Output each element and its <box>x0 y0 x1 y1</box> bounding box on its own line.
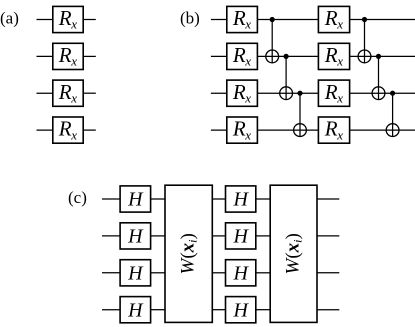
svg-text:R: R <box>232 6 246 30</box>
svg-text:H: H <box>127 189 144 211</box>
wire b1 left <box>211 19 227 21</box>
CNOT b-L2 q2->q3: control dot and vertical line <box>376 54 381 100</box>
gate Rx B2-4 <box>318 117 349 144</box>
svg-text:H: H <box>232 299 249 321</box>
svg-text:x: x <box>244 54 251 69</box>
gate H C2-4 <box>226 297 256 323</box>
wire c3 out <box>317 272 339 274</box>
svg-text:x: x <box>244 127 251 142</box>
gate Rx A4 <box>53 117 83 144</box>
CNOT b-L1 q2->q3: target oplus <box>280 87 293 100</box>
svg-text:(a): (a) <box>0 9 19 28</box>
wire a1 right <box>83 19 96 21</box>
wire c1 in <box>102 198 120 200</box>
svg-text:R: R <box>58 80 72 104</box>
svg-text:R: R <box>324 80 338 104</box>
gate H C2-2 <box>226 223 256 249</box>
CNOT b-L1 q2->q3: control dot and vertical line <box>284 54 289 100</box>
wire c2 seg2 <box>212 235 225 237</box>
svg-text:x: x <box>336 54 343 69</box>
svg-text:x: x <box>336 127 343 142</box>
gate Rx B1-2 <box>227 43 258 70</box>
CNOT b-L1 q1->q2: control dot and vertical line <box>270 17 275 63</box>
svg-text:H: H <box>232 262 249 284</box>
svg-text:x: x <box>244 90 251 105</box>
svg-text:H: H <box>127 226 144 248</box>
svg-text:R: R <box>232 43 246 67</box>
wire c4 seg3 <box>256 309 270 311</box>
gate W(x_i) #1 (entangling block) <box>165 185 212 322</box>
gate H C2-3 <box>226 260 256 286</box>
svg-text:R: R <box>324 117 338 141</box>
CNOT b-L2 q2->q3: target oplus <box>372 87 385 100</box>
wire c3 in <box>102 272 120 274</box>
wire b3 main <box>257 92 415 94</box>
gate Rx B1-4 <box>227 117 258 144</box>
wire c2 out <box>317 235 339 237</box>
wire c1 seg2 <box>212 198 225 200</box>
svg-text:(c): (c) <box>68 188 87 207</box>
svg-text:H: H <box>127 299 144 321</box>
gate Rx B2-2 <box>318 43 349 70</box>
wire b3 left <box>211 92 227 94</box>
svg-text:H: H <box>232 189 249 211</box>
wire c3 seg1 <box>151 272 165 274</box>
wire a2 left <box>37 55 53 57</box>
wire c3 seg3 <box>256 272 270 274</box>
wire a3 right <box>83 92 96 94</box>
svg-text:R: R <box>232 80 246 104</box>
gate Rx B2-3 <box>318 80 349 107</box>
wire c4 out <box>317 309 339 311</box>
wire a4 right <box>83 129 96 131</box>
wire a4 left <box>37 129 53 131</box>
svg-text:H: H <box>232 226 249 248</box>
gate H C1-4 <box>120 297 151 323</box>
CNOT b-L2 q3->q4: control dot and vertical line <box>390 91 395 137</box>
wire c4 in <box>102 309 120 311</box>
gate Rx B1-1 <box>227 6 258 33</box>
svg-text:H: H <box>127 262 144 284</box>
svg-text:R: R <box>58 117 72 141</box>
wire c3 seg2 <box>212 272 225 274</box>
CNOT b-L1 q3->q4: control dot and vertical line <box>297 91 302 137</box>
svg-text:x: x <box>70 17 77 32</box>
svg-text:x: x <box>244 17 251 32</box>
svg-text:R: R <box>58 6 72 30</box>
svg-text:x: x <box>70 54 77 69</box>
svg-text:R: R <box>232 117 246 141</box>
wire b4 left <box>211 129 227 131</box>
wire c1 seg3 <box>256 198 270 200</box>
wire c1 out <box>317 198 339 200</box>
wire c2 seg1 <box>151 235 165 237</box>
svg-text:x: x <box>336 17 343 32</box>
svg-text:x: x <box>70 90 77 105</box>
wire b1 main <box>257 19 415 21</box>
svg-text:R: R <box>324 43 338 67</box>
CNOT b-L2 q1->q2: control dot and vertical line <box>362 17 367 63</box>
gate W(x_i) #2 (entangling block) <box>270 185 317 322</box>
wire a1 left <box>37 19 53 21</box>
gate Rx B2-1 <box>318 6 349 33</box>
svg-text:(b): (b) <box>180 9 200 28</box>
wire b2 left <box>211 55 227 57</box>
gate Rx B1-3 <box>227 80 258 107</box>
gate Rx A1 <box>53 6 83 33</box>
wire b2 main <box>257 55 415 57</box>
gate H C1-1 <box>120 186 151 212</box>
wire c2 in <box>102 235 120 237</box>
CNOT b-L1 q1->q2: target oplus <box>266 50 279 63</box>
gate Rx A3 <box>53 80 83 107</box>
CNOT b-L1 q3->q4: target oplus <box>294 124 307 137</box>
svg-text:R: R <box>58 43 72 67</box>
CNOT b-L2 q1->q2: target oplus <box>358 50 371 63</box>
wire c1 seg1 <box>151 198 165 200</box>
wire a3 left <box>37 92 53 94</box>
wire c4 seg1 <box>151 309 165 311</box>
gate H C2-1 <box>226 186 256 212</box>
wire c4 seg2 <box>212 309 225 311</box>
svg-text:x: x <box>336 90 343 105</box>
gate H C1-2 <box>120 223 151 249</box>
gate Rx A2 <box>53 43 83 70</box>
wire a2 right <box>83 55 96 57</box>
CNOT b-L2 q3->q4: target oplus <box>386 124 399 137</box>
wire c2 seg3 <box>256 235 270 237</box>
svg-text:W(xi): W(xi) <box>282 233 304 274</box>
svg-text:x: x <box>70 127 77 142</box>
gate H C1-3 <box>120 260 151 286</box>
svg-text:R: R <box>324 6 338 30</box>
svg-text:W(xi): W(xi) <box>177 233 199 274</box>
wire b4 main <box>257 129 415 131</box>
